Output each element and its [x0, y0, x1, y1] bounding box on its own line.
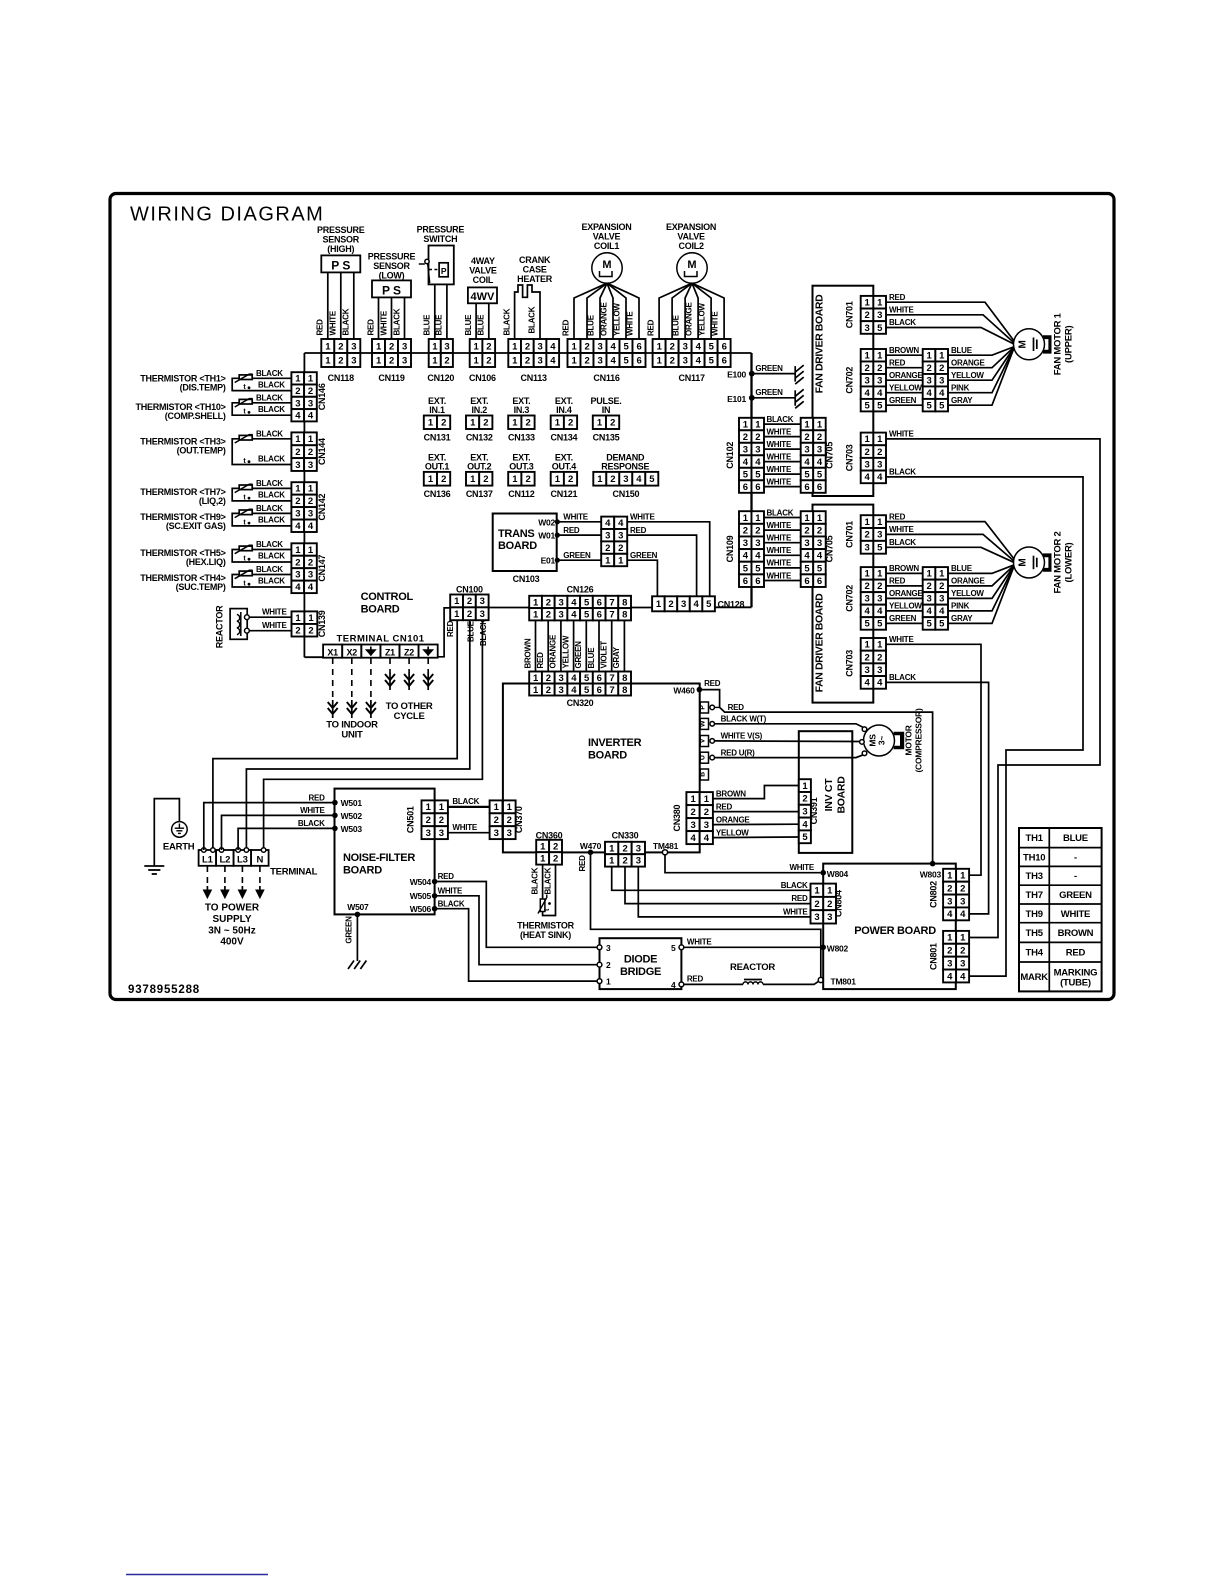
- svg-text:TERMINAL: TERMINAL: [270, 867, 318, 878]
- svg-text:CN131: CN131: [424, 433, 451, 443]
- svg-text:E01: E01: [541, 556, 556, 566]
- svg-text:3: 3: [558, 597, 563, 608]
- 4WV box: [468, 287, 497, 303]
- svg-text:BLUE: BLUE: [672, 314, 681, 336]
- wire W(T) to compressor: [715, 724, 864, 728]
- svg-text:PINK: PINK: [951, 602, 970, 611]
- reactor (power): [744, 979, 762, 981]
- connector CN119: [372, 339, 385, 353]
- svg-text:BLACK: BLACK: [256, 540, 283, 549]
- pressure switch P box: [439, 263, 448, 277]
- svg-text:2: 2: [865, 447, 870, 458]
- svg-text:3: 3: [295, 398, 300, 409]
- svg-text:2: 2: [389, 355, 394, 366]
- svg-text:6: 6: [804, 576, 809, 587]
- svg-text:INVERTER: INVERTER: [588, 737, 642, 749]
- svg-text:WHITE: WHITE: [889, 430, 914, 439]
- svg-text:VALVE: VALVE: [593, 232, 621, 242]
- svg-text:3: 3: [351, 355, 356, 366]
- svg-text:3: 3: [683, 341, 688, 352]
- svg-text:Z1: Z1: [385, 647, 395, 657]
- connector CN703 board2: [861, 638, 874, 651]
- svg-text:IN.3: IN.3: [514, 405, 530, 415]
- svg-text:ORANGE: ORANGE: [951, 577, 986, 586]
- connector CN147: [291, 543, 304, 555]
- svg-text:COIL: COIL: [473, 275, 494, 285]
- svg-text:3: 3: [877, 310, 882, 321]
- svg-text:CN360: CN360: [536, 830, 563, 840]
- svg-text:CN703: CN703: [844, 650, 854, 677]
- svg-text:BLACK: BLACK: [298, 819, 325, 828]
- wire CN109.4 WHITE: [764, 554, 801, 556]
- svg-text:YELLOW: YELLOW: [561, 635, 570, 668]
- svg-text:V: V: [699, 738, 706, 743]
- wire CN102.5 WHITE: [764, 473, 801, 475]
- svg-text:2: 2: [525, 418, 530, 429]
- terminal W: [700, 718, 708, 729]
- svg-text:2: 2: [755, 525, 760, 536]
- wire E100 green to chassis: [752, 373, 795, 375]
- svg-text:6: 6: [743, 482, 748, 493]
- svg-text:2: 2: [865, 310, 870, 321]
- svg-text:2: 2: [553, 841, 558, 852]
- svg-text:CN380: CN380: [672, 804, 682, 831]
- svg-text:3: 3: [865, 376, 870, 387]
- svg-text:CN132: CN132: [466, 433, 493, 443]
- svg-text:3: 3: [927, 376, 932, 387]
- svg-text:3: 3: [865, 594, 870, 605]
- svg-text:WHITE: WHITE: [262, 608, 287, 617]
- svg-text:3: 3: [804, 538, 809, 549]
- svg-text:BLACK: BLACK: [479, 619, 488, 646]
- thermistor TH9: [239, 510, 252, 515]
- svg-text:TH9: TH9: [1026, 909, 1043, 920]
- svg-text:BLACK: BLACK: [342, 308, 351, 335]
- svg-text:BLACK: BLACK: [767, 415, 794, 424]
- svg-text:RED: RED: [316, 319, 325, 336]
- svg-text:2: 2: [877, 652, 882, 663]
- svg-text:2: 2: [308, 386, 313, 397]
- wire CN702 GREEN: [886, 404, 923, 406]
- svg-text:3: 3: [351, 341, 356, 352]
- svg-text:BOARD: BOARD: [343, 865, 382, 877]
- wire PS high to CN118: [327, 272, 329, 339]
- svg-text:2: 2: [865, 530, 870, 541]
- svg-text:2: 2: [939, 363, 944, 374]
- svg-text:Z2: Z2: [404, 647, 414, 657]
- svg-text:2: 2: [939, 581, 944, 592]
- svg-text:M: M: [1018, 340, 1029, 348]
- svg-text:2: 2: [441, 418, 446, 429]
- wire CN702b ORANGE: [886, 597, 923, 599]
- wire pressure switch to CN120: [434, 284, 436, 339]
- svg-text:BLACK: BLACK: [889, 468, 916, 477]
- wire CN701.2 WHITE to fan motor2: [886, 534, 1014, 561]
- connector CN128: [652, 596, 665, 611]
- svg-text:2: 2: [804, 525, 809, 536]
- svg-text:CN705: CN705: [825, 442, 835, 469]
- svg-text:WHITE: WHITE: [767, 521, 792, 530]
- svg-text:6: 6: [743, 576, 748, 587]
- svg-text:2: 2: [295, 626, 300, 637]
- connector CN705 board1: [801, 418, 814, 431]
- svg-text:CN703: CN703: [844, 444, 854, 471]
- wire CN103 row3 to CN128 pin4: [627, 535, 696, 596]
- svg-text:RED: RED: [889, 293, 906, 302]
- svg-text:2: 2: [467, 596, 472, 607]
- wire CN380.2 RED to CN391.3: [713, 811, 799, 813]
- node W460: [697, 687, 703, 693]
- connector CN144: [291, 432, 304, 445]
- svg-text:7: 7: [609, 610, 614, 621]
- wire CN703.1 WHITE to CN801.1: [886, 439, 1100, 938]
- connector CN702 board1: [861, 349, 874, 361]
- svg-text:7: 7: [609, 673, 614, 684]
- svg-text:3: 3: [947, 958, 952, 969]
- svg-text:VALVE: VALVE: [469, 266, 497, 276]
- svg-text:(HEX.LIQ): (HEX.LIQ): [186, 557, 226, 567]
- svg-text:CN804: CN804: [834, 890, 844, 917]
- svg-text:CN501: CN501: [406, 806, 416, 833]
- svg-text:GREEN: GREEN: [1059, 890, 1092, 901]
- svg-text:B: B: [699, 772, 706, 777]
- wire reactor to TM801: [763, 981, 819, 984]
- svg-text:TH1: TH1: [1026, 833, 1044, 844]
- svg-text:8: 8: [622, 673, 627, 684]
- svg-text:3: 3: [683, 355, 688, 366]
- svg-text:L2: L2: [220, 855, 231, 866]
- connector CN135: [593, 416, 606, 430]
- svg-text:2: 2: [546, 610, 551, 621]
- svg-text:RED: RED: [578, 855, 587, 872]
- svg-text:3: 3: [681, 599, 686, 610]
- svg-text:U: U: [699, 755, 706, 760]
- svg-text:2: 2: [483, 474, 488, 485]
- fan motor 2: [1014, 547, 1045, 578]
- svg-text:BLACK: BLACK: [258, 405, 285, 414]
- svg-text:ORANGE: ORANGE: [600, 301, 609, 336]
- svg-text:4WV: 4WV: [470, 291, 495, 303]
- fan driver board 2: [813, 505, 874, 703]
- svg-text:2: 2: [568, 418, 573, 429]
- svg-text:CN119: CN119: [378, 373, 405, 383]
- svg-text:WHITE: WHITE: [789, 863, 814, 872]
- wire CN102.6 WHITE: [764, 486, 801, 488]
- svg-text:2: 2: [606, 960, 611, 970]
- svg-text:2: 2: [295, 386, 300, 397]
- wire fan1 GRAY: [948, 347, 1015, 406]
- svg-text:(LIQ,2): (LIQ,2): [199, 496, 226, 506]
- svg-text:DIODE: DIODE: [624, 954, 657, 966]
- svg-text:2: 2: [525, 355, 530, 366]
- svg-text:9378955288: 9378955288: [128, 984, 200, 996]
- svg-text:CN102: CN102: [725, 442, 735, 469]
- inverter board: [503, 684, 700, 853]
- svg-text:2: 2: [584, 355, 589, 366]
- wire W504 to diode bridge pin3: [435, 882, 598, 948]
- wire right vertical bus E100/E101: [750, 353, 752, 607]
- wire CN102.4 WHITE: [764, 461, 801, 463]
- svg-text:3: 3: [877, 460, 882, 471]
- svg-text:WHITE: WHITE: [767, 571, 792, 580]
- svg-text:BLACK: BLACK: [256, 504, 283, 513]
- svg-text:YELLOW: YELLOW: [698, 303, 707, 336]
- svg-text:VIOLET: VIOLET: [600, 641, 609, 669]
- svg-text:BROWN: BROWN: [889, 346, 919, 355]
- svg-text:CN705: CN705: [825, 535, 835, 562]
- svg-text:3: 3: [927, 594, 932, 605]
- svg-text:P S: P S: [382, 284, 401, 298]
- svg-text:RESPONSE: RESPONSE: [601, 462, 649, 472]
- svg-text:WHITE: WHITE: [783, 907, 808, 916]
- thermistor TH7: [239, 485, 252, 490]
- svg-text:CN116: CN116: [593, 373, 620, 383]
- svg-text:OUT.2: OUT.2: [467, 462, 492, 472]
- svg-text:GREEN: GREEN: [889, 396, 917, 405]
- svg-text:WHITE: WHITE: [767, 534, 792, 543]
- svg-text:YELLOW: YELLOW: [889, 383, 922, 392]
- svg-text:CN121: CN121: [551, 489, 578, 499]
- wire CN103 row4 to CN128 pin5: [627, 522, 709, 597]
- wire CN702 RED: [886, 367, 923, 369]
- svg-text:RED: RED: [687, 974, 704, 983]
- svg-text:3: 3: [494, 828, 499, 839]
- wire CN701.3 BLACK to fan motor2: [886, 547, 1014, 562]
- wire CN100 pin3 drop BLACK: [264, 620, 483, 850]
- chassis ground E101: [794, 390, 796, 406]
- svg-text:FAN DRIVER BOARD: FAN DRIVER BOARD: [813, 593, 825, 692]
- wire CN102.1 BLACK: [764, 423, 801, 425]
- power board: [823, 864, 956, 990]
- dashed drops to power supply: [206, 866, 208, 886]
- svg-text:2: 2: [338, 355, 343, 366]
- connector CN131: [424, 416, 437, 430]
- svg-text:ORANGE: ORANGE: [716, 815, 751, 824]
- svg-text:SENSOR: SENSOR: [323, 235, 360, 245]
- svg-text:TM481: TM481: [653, 841, 679, 851]
- wire CN380.1 BROWN to CN391.1: [713, 786, 799, 799]
- connector CN802: [943, 869, 956, 882]
- wire CN501 to CN370 BLACK: [448, 806, 490, 808]
- svg-text:CN144: CN144: [317, 438, 327, 465]
- node W502: [332, 813, 338, 819]
- connector CN701 board2: [861, 515, 874, 528]
- fan motor 1: [1014, 329, 1045, 360]
- svg-text:TH5: TH5: [1026, 928, 1044, 939]
- svg-text:3: 3: [308, 570, 313, 581]
- wire CN702 ORANGE: [886, 379, 923, 381]
- svg-text:WHITE: WHITE: [1061, 909, 1090, 920]
- node W803: [930, 861, 936, 867]
- svg-text:2: 2: [486, 355, 491, 366]
- svg-text:BLACK: BLACK: [256, 369, 283, 378]
- svg-text:BLACK: BLACK: [258, 455, 285, 464]
- connector CN370: [490, 800, 503, 813]
- wire diode pin4 to reactor: [684, 983, 743, 985]
- svg-text:3: 3: [947, 896, 952, 907]
- thermistor TH1: [239, 375, 252, 380]
- svg-text:2: 2: [865, 652, 870, 663]
- svg-text:(SUC.TEMP): (SUC.TEMP): [176, 582, 226, 592]
- svg-text:2: 2: [486, 341, 491, 352]
- wire fan1 ORANGE: [948, 347, 1015, 368]
- svg-text:2: 2: [295, 447, 300, 458]
- svg-text:RED: RED: [308, 793, 325, 802]
- svg-text:OUT.3: OUT.3: [509, 462, 534, 472]
- svg-text:RED: RED: [366, 319, 375, 336]
- terminal strip CN101: [323, 645, 342, 658]
- wire CN330.1 to CN804.1: [612, 867, 811, 891]
- svg-text:YELLOW: YELLOW: [613, 303, 622, 336]
- svg-text:2: 2: [426, 815, 431, 826]
- svg-text:2: 2: [483, 418, 488, 429]
- svg-text:FAN MOTOR 1: FAN MOTOR 1: [1053, 312, 1064, 375]
- thermistor color table: [1019, 828, 1102, 991]
- connector CN320: [529, 672, 542, 684]
- svg-text:3: 3: [877, 530, 882, 541]
- connector CN391: [799, 779, 811, 792]
- wire earth to ground: [154, 799, 179, 866]
- svg-text:3: 3: [743, 444, 748, 455]
- svg-text:GREEN: GREEN: [755, 364, 783, 373]
- svg-text:-: -: [1074, 852, 1077, 863]
- svg-text:YELLOW: YELLOW: [716, 828, 749, 837]
- wire CN102.2 WHITE: [764, 436, 801, 438]
- svg-text:2: 2: [584, 341, 589, 352]
- svg-text:2: 2: [817, 525, 822, 536]
- svg-text:6: 6: [636, 355, 641, 366]
- wire CN380.3 ORANGE to CN391.4: [713, 823, 799, 825]
- wire W507 to ground: [356, 914, 358, 961]
- svg-text:WHITE V(S): WHITE V(S): [721, 732, 763, 741]
- svg-text:BLACK: BLACK: [258, 551, 285, 560]
- svg-text:2: 2: [308, 557, 313, 568]
- svg-text:CN146: CN146: [317, 383, 327, 410]
- svg-text:BLUE: BLUE: [464, 314, 473, 336]
- svg-text:WHITE: WHITE: [379, 310, 388, 335]
- svg-text:W804: W804: [827, 869, 849, 879]
- wire fan2 YELLOW: [948, 565, 1015, 599]
- wire W505 to diode bridge pin2: [435, 896, 598, 965]
- fan driver board 1: [813, 286, 874, 496]
- svg-text:2: 2: [960, 946, 965, 957]
- svg-text:W01: W01: [538, 531, 555, 541]
- wire CN100 left to terminal CN101: [438, 608, 450, 657]
- svg-text:2: 2: [525, 474, 530, 485]
- svg-text:ORANGE: ORANGE: [889, 371, 924, 380]
- svg-text:RED: RED: [630, 526, 647, 535]
- svg-text:2: 2: [668, 599, 673, 610]
- node W503: [332, 826, 338, 832]
- svg-text:BROWN: BROWN: [1058, 928, 1094, 939]
- svg-text:2: 2: [743, 525, 748, 536]
- wire CN109.3 WHITE: [764, 542, 801, 544]
- wire diode pin5 to W802 WHITE: [684, 946, 823, 948]
- inv ct board: [799, 731, 853, 853]
- connector CN804: [811, 884, 824, 897]
- svg-text:SENSOR: SENSOR: [373, 261, 410, 271]
- svg-text:3: 3: [426, 828, 431, 839]
- svg-text:3: 3: [558, 685, 563, 696]
- svg-text:RED: RED: [647, 319, 656, 336]
- svg-text:WHITE: WHITE: [767, 477, 792, 486]
- svg-text:BROWN: BROWN: [889, 564, 919, 573]
- thermistor TH10: [239, 399, 252, 404]
- wire W503 to L3: [238, 828, 335, 850]
- svg-text:RED: RED: [889, 358, 906, 367]
- wire CN702 YELLOW: [886, 392, 923, 394]
- wire E101 green to chassis: [752, 397, 795, 399]
- border frame: [110, 194, 1114, 1000]
- svg-text:3: 3: [308, 460, 313, 471]
- svg-text:BLACK: BLACK: [392, 308, 401, 335]
- svg-text:PINK: PINK: [951, 383, 970, 392]
- connector CN133: [508, 416, 521, 430]
- svg-text:CN147: CN147: [317, 555, 327, 582]
- wire CN102.3 WHITE: [764, 448, 801, 450]
- svg-text:2: 2: [877, 447, 882, 458]
- wire CN109.5 WHITE: [764, 567, 801, 569]
- motor compressor: [864, 725, 895, 756]
- svg-text:TH7: TH7: [1026, 890, 1043, 901]
- svg-text:3: 3: [480, 609, 485, 620]
- blue underline: [126, 1574, 268, 1576]
- svg-text:THERMISTOR: THERMISTOR: [517, 921, 575, 931]
- svg-text:3: 3: [960, 896, 965, 907]
- svg-text:W802: W802: [827, 944, 849, 954]
- svg-text:P: P: [441, 266, 447, 276]
- svg-text:E100: E100: [727, 370, 746, 380]
- svg-text:3: 3: [538, 355, 543, 366]
- svg-text:2: 2: [622, 843, 627, 854]
- chassis ground E100: [794, 366, 796, 382]
- svg-text:3: 3: [623, 474, 628, 485]
- svg-text:3N ~ 50Hz: 3N ~ 50Hz: [208, 926, 256, 937]
- svg-text:2: 2: [610, 418, 615, 429]
- wire CN701.3 BLACK to fan motor1: [886, 328, 1014, 345]
- svg-text:BLUE: BLUE: [423, 314, 432, 336]
- svg-text:L1: L1: [202, 855, 214, 866]
- wire W470 to TM801 RED: [591, 852, 821, 977]
- fan1 mid connector: [923, 349, 936, 361]
- svg-text:PRESSURE: PRESSURE: [417, 225, 465, 235]
- svg-text:RED: RED: [791, 894, 808, 903]
- svg-text:3: 3: [865, 665, 870, 676]
- svg-text:2: 2: [308, 626, 313, 637]
- svg-text:(COMPRESSOR): (COMPRESSOR): [914, 708, 924, 772]
- svg-text:6: 6: [722, 355, 727, 366]
- svg-text:W503: W503: [341, 824, 363, 834]
- svg-text:6: 6: [817, 482, 822, 493]
- svg-text:PRESSURE: PRESSURE: [317, 225, 365, 235]
- svg-text:X1: X1: [327, 647, 338, 657]
- svg-text:CN109: CN109: [725, 535, 735, 562]
- svg-text:8: 8: [622, 685, 627, 696]
- svg-text:2: 2: [507, 815, 512, 826]
- svg-text:P: P: [699, 705, 706, 710]
- svg-text:ORANGE: ORANGE: [549, 634, 558, 669]
- svg-text:YELLOW: YELLOW: [951, 371, 984, 380]
- connector CN103 mate: [601, 517, 614, 529]
- wire CN109.2 WHITE: [764, 529, 801, 531]
- svg-text:W501: W501: [341, 798, 363, 808]
- svg-text:HEATER: HEATER: [517, 274, 553, 284]
- svg-text:TH10: TH10: [1023, 852, 1045, 863]
- svg-text:3: 3: [558, 673, 563, 684]
- svg-text:6: 6: [597, 685, 602, 696]
- wire CN701.1 RED to fan motor2: [886, 522, 1015, 560]
- svg-text:BLUE: BLUE: [587, 314, 596, 336]
